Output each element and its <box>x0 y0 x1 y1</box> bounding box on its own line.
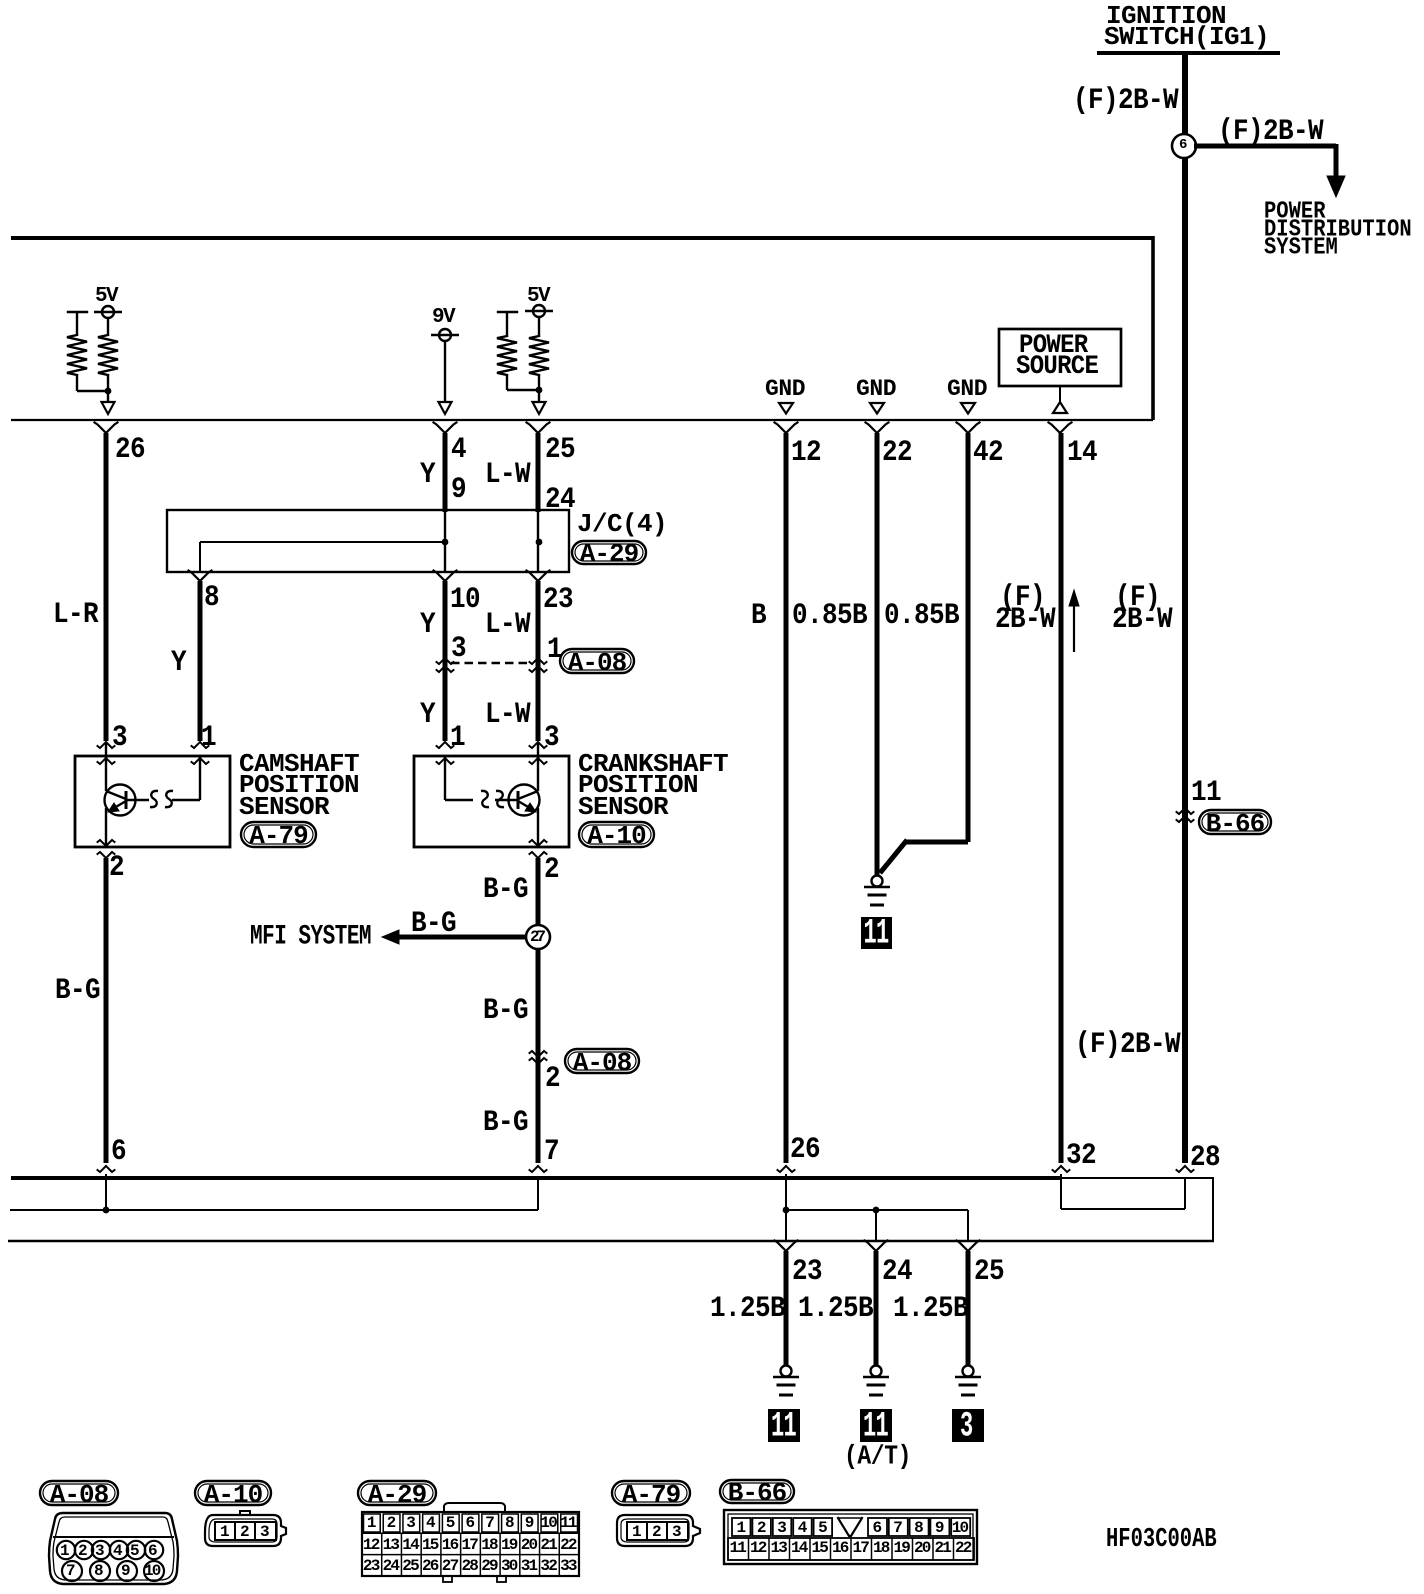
ECU pin 42 terminal <box>957 423 980 434</box>
ECU pin 26 terminal (text) <box>115 434 145 464</box>
node 6 splice junction <box>1172 134 1196 158</box>
ground ref 11 black tag left <box>768 1409 800 1442</box>
power symbol 9V rail <box>431 329 459 341</box>
label L-W mid (text) <box>485 609 530 639</box>
connector A-08 crossing pin 3 <box>437 658 454 672</box>
label (F)2B-W lower right (text) <box>1075 1029 1180 1059</box>
node 6 splice junction (text) <box>1179 138 1187 152</box>
ECU lower pin 28 terminal <box>1177 1166 1194 1172</box>
ground G4 (pin 25) <box>955 1366 981 1396</box>
diagram code HF03C00AB (text) <box>1106 1528 1217 1555</box>
wire B-G crankshaft to node 27 <box>536 858 541 937</box>
ECU pin 4 terminal (text) <box>451 434 466 464</box>
connector B-66 crossing pin 11 <box>1177 808 1194 822</box>
connector ref A-10 tag <box>579 822 654 847</box>
connector A-08 crossing pin 1 (text) <box>547 634 562 664</box>
camshaft position sensor box <box>75 756 230 847</box>
connector ref A-08 tag lower <box>565 1049 639 1073</box>
label 5V supply rail 2 (text) <box>527 286 549 307</box>
transistor Q1 camshaft sensor <box>105 742 150 846</box>
crankshaft sensor connector terminals pin 3 <box>530 742 547 764</box>
ground ref 11 black tag AT (text) <box>863 1410 888 1445</box>
wire B pin 12 to ECU lower <box>784 433 789 1163</box>
junction connector J/C(4) box <box>167 510 569 572</box>
label Y at wire 8 (text) <box>171 647 186 677</box>
label B-G crank upper (text) <box>483 874 528 904</box>
legend A-29 tag (text) <box>368 1482 426 1508</box>
ECU lower pin 28 terminal (text) <box>1190 1142 1220 1172</box>
label 1.25B wire 23 (text) <box>710 1293 785 1323</box>
ECU pin 42 terminal (text) <box>973 437 1003 467</box>
ground G1 (wires 22/42) <box>864 876 890 906</box>
crankshaft sensor output terminal pin 2 <box>530 840 547 858</box>
ECU lower pin 7 terminal (text) <box>544 1136 559 1166</box>
ECU pin 12 terminal (text) <box>791 437 821 467</box>
resistor R-pullup pair at pin 26 <box>67 311 118 402</box>
label B-G at MFI branch (text) <box>411 908 456 938</box>
J/C terminal pin 23 wire L-W <box>527 571 550 742</box>
label 0.85B wire 22 (text) <box>792 600 867 630</box>
camshaft sensor connector terminals pin 3 <box>98 742 115 764</box>
J/C terminal pin 10 wire Y (text) <box>450 584 480 614</box>
ignition switch label IGNITION SWITCH(IG1) <box>1097 51 1280 55</box>
wire 2B-W pin 14 to ECU lower <box>1059 433 1064 1163</box>
transistor Q2 crankshaft sensor <box>495 742 540 846</box>
ECU pin 4 terminal <box>434 423 457 434</box>
connector ref A-79 tag (text) <box>249 823 307 849</box>
wire ignition feed 2B-W vertical <box>1182 55 1188 1163</box>
ECU pin 22 terminal (text) <box>882 437 912 467</box>
ECU pin 26 terminal <box>95 423 118 434</box>
label crankshaft position sensor (text) <box>578 751 728 777</box>
legend connector A-79 drawing (text) <box>632 1524 640 1540</box>
label Y lower (text) <box>420 699 435 729</box>
junction dot pin 24 bus <box>873 1207 880 1214</box>
label L-R (text) <box>53 599 98 629</box>
connector ref A-29 tag <box>572 541 646 564</box>
crankshaft position sensor box <box>414 756 569 847</box>
junction dot resistor group 1 <box>105 388 112 395</box>
arrow into ECU pin 4 (open triangle) <box>439 402 452 414</box>
camshaft sensor output terminal pin 2 <box>98 840 115 858</box>
legend connector A-10 drawing (text) <box>220 1524 228 1540</box>
crankshaft sensor connector terminals pin 1 <box>437 742 454 764</box>
label 0.85B wire 42 (text) <box>884 600 959 630</box>
wire B-G camshaft to ECU pin 6 <box>104 858 109 1163</box>
current direction arrow up <box>1069 590 1079 652</box>
J/C terminal pin 10 wire Y <box>434 571 457 742</box>
magnetic pickup crankshaft sensor <box>445 757 504 807</box>
junction dot pin 23 bus <box>783 1207 790 1214</box>
label (F)2B-W at ignition wire (text) <box>1115 582 1160 612</box>
label J/C(4) (text) <box>577 511 667 537</box>
camshaft sensor connector terminals pin 1 (text) <box>201 722 216 752</box>
ECU pin 25 terminal <box>527 423 550 434</box>
label L-W lower (text) <box>485 699 530 729</box>
label B (text) <box>751 600 766 630</box>
J/C terminal to pin 8 wire Y (text) <box>204 582 219 612</box>
wire Y pins 4/9 to J/C <box>443 433 448 512</box>
ground ref 11 black tag mid (text) <box>864 917 889 952</box>
legend A-08 tag (text) <box>50 1482 108 1508</box>
ground ref 11 black tag left (text) <box>771 1410 796 1445</box>
internal wire pins 26-23-24-25 bus <box>786 1174 968 1241</box>
connector A-08 crossing pin 3 (text) <box>451 633 466 663</box>
legend A-10 tag (text) <box>204 1482 262 1508</box>
ECU pin 25 terminal (text) <box>545 434 575 464</box>
ground ref 11 black tag mid <box>861 917 892 949</box>
legend connector B-66 drawing (text) <box>737 1520 745 1536</box>
power symbol 5V rail 1 <box>94 306 122 318</box>
connector A-08 crossing pin 2 (text) <box>545 1063 560 1093</box>
connector B-66 crossing pin 11 (text) <box>1191 777 1221 807</box>
internal wire pins 6-7 bus <box>10 1174 538 1210</box>
label 1.25B wire 25 (text) <box>893 1293 968 1323</box>
connector ref B-66 tag inline <box>1199 810 1271 834</box>
ECU lower pin 25 terminal out (text) <box>974 1256 1004 1286</box>
label B-G lowest (text) <box>483 1107 528 1137</box>
connector ref A-08 tag lower (text) <box>573 1050 631 1076</box>
GND internal label 2 (text) <box>856 378 896 401</box>
ECU lower pin 7 terminal <box>530 1166 547 1172</box>
label 9V supply rail (text) <box>432 307 454 328</box>
GND internal label 1 <box>779 403 793 414</box>
label Y upper (text) <box>420 459 435 489</box>
ECU lower pin 26 terminal (text) <box>790 1134 820 1164</box>
label B-G below node 27 (text) <box>483 995 528 1025</box>
internal wire pins 32-28 bus <box>1061 1174 1185 1209</box>
ECU pin 14 terminal <box>1049 423 1072 434</box>
label 1.25B wire 24 (text) <box>798 1293 873 1323</box>
legend A-10 tag <box>195 1481 271 1505</box>
ECU pin 24 second label (text) <box>545 484 575 514</box>
ECU lower pin 32 terminal (text) <box>1066 1140 1096 1170</box>
power symbol 5V rail 2 <box>525 305 553 317</box>
ECU pin 22 terminal <box>866 423 889 434</box>
legend connector A-08 drawing <box>49 1513 178 1584</box>
ECU lower pin 23 terminal out (text) <box>792 1256 822 1286</box>
legend A-08 tag <box>40 1481 118 1505</box>
engine ECU bottom band outline <box>8 1178 1214 1242</box>
legend A-79 tag (text) <box>622 1482 680 1508</box>
engine ECU top band outline <box>11 236 1153 420</box>
camshaft sensor connector terminals pin 1 <box>192 742 209 764</box>
crankshaft sensor output terminal pin 2 (text) <box>544 854 559 884</box>
power source block inside ECU (text) <box>1019 333 1088 360</box>
junction dot pin 6 bus <box>103 1207 110 1214</box>
legend connector A-08 drawing (text) <box>60 1543 68 1559</box>
camshaft sensor output terminal pin 2 (text) <box>109 852 124 882</box>
J/C terminal to pin 8 wire Y <box>189 571 212 742</box>
wire L-R pin 26 to camshaft sensor <box>104 433 109 741</box>
wire 0.85B pin 22 to ground <box>875 433 880 876</box>
arrow into ECU pin 25 (open triangle) <box>533 402 546 414</box>
label MFI SYSTEM (text) <box>250 924 371 951</box>
label (F)2B-W at wire 14 (text) <box>1000 582 1045 612</box>
legend A-79 tag <box>612 1481 690 1505</box>
ECU pin 12 terminal <box>775 423 798 434</box>
ground ref 3 black tag <box>952 1409 984 1442</box>
connector ref A-10 tag (text) <box>587 823 645 849</box>
label B-G left (text) <box>55 975 100 1005</box>
connector ref A-08 tag upper (text) <box>568 650 626 676</box>
connector ref B-66 tag inline (text) <box>1206 811 1264 837</box>
power source block inside ECU <box>999 329 1121 413</box>
label (F)2B-W ignition upper (text) <box>1073 85 1178 115</box>
ECU pin 14 terminal (text) <box>1067 437 1097 467</box>
ECU lower pin 26 terminal <box>778 1166 795 1172</box>
connector ref A-79 tag <box>241 822 316 847</box>
label L-W upper (text) <box>485 459 530 489</box>
magnetic pickup camshaft sensor <box>150 757 200 807</box>
ECU lower pin 24 terminal out (text) <box>882 1256 912 1286</box>
node 27 splice junction <box>526 925 550 1163</box>
ECU lower pin 23 terminal out <box>775 1241 798 1367</box>
wire branch to power distribution system <box>1194 144 1345 197</box>
camshaft sensor connector terminals pin 3 (text) <box>112 722 127 752</box>
wire B-G branch to MFI system <box>382 930 527 944</box>
ignition switch label IGNITION SWITCH(IG1) (text) <box>1106 3 1226 29</box>
ECU lower pin 6 terminal <box>98 1166 115 1172</box>
legend connector A-29 drawing (text) <box>367 1515 375 1531</box>
legend connector A-10 drawing <box>205 1511 286 1546</box>
GND internal label 3 <box>961 403 975 414</box>
wire 0.85B pin 42 to ground <box>880 433 968 873</box>
label power distribution system (text) <box>1264 201 1326 225</box>
label 5V supply rail 1 (text) <box>95 286 117 307</box>
ground G3 (pin 24) <box>863 1366 889 1396</box>
J/C terminal pin 23 wire L-W (text) <box>543 584 573 614</box>
connector ref A-29 tag (text) <box>580 541 638 567</box>
wire 9V to pin 4 <box>444 341 446 402</box>
junction dot J/C at L-W wire <box>536 539 543 546</box>
ECU lower pin 6 terminal (text) <box>111 1136 126 1166</box>
connector A-08 crossing pin 1 <box>530 658 547 672</box>
label camshaft position sensor (text) <box>239 751 359 777</box>
ground ref 11 black tag AT <box>860 1409 892 1442</box>
wire L-W pins 25/24 to J/C <box>536 433 541 512</box>
junction dot resistor group 2 <box>536 387 543 394</box>
GND internal label 1 (text) <box>765 378 805 401</box>
legend B-66 tag <box>720 1480 794 1503</box>
junction dot J/C bus at Y wire <box>442 539 449 546</box>
crankshaft sensor connector terminals pin 3 (text) <box>544 722 559 752</box>
ECU lower pin 24 terminal out <box>865 1241 888 1367</box>
node 27 splice junction (text) <box>530 929 543 945</box>
connector A-08 crossing pin 2 <box>530 1051 547 1064</box>
arrow into ECU pin 26 (open triangle) <box>102 402 115 414</box>
GND internal label 2 <box>870 403 884 414</box>
ground ref 3 black tag (text) <box>960 1410 973 1445</box>
legend connector A-29 drawing <box>362 1503 579 1582</box>
ECU lower pin 32 terminal <box>1053 1166 1070 1172</box>
resistor R-pullup pair at pin 25 <box>497 311 549 402</box>
ground G2 (pin 23) <box>773 1366 799 1396</box>
label (A/T) (text) <box>844 1444 911 1470</box>
legend B-66 tag (text) <box>728 1480 786 1506</box>
legend connector A-79 drawing <box>617 1515 700 1546</box>
ECU lower pin 25 terminal out <box>957 1241 980 1367</box>
legend connector B-66 drawing <box>724 1510 977 1564</box>
label Y mid (text) <box>420 609 435 639</box>
connector ref A-08 tag upper <box>560 649 634 673</box>
connector A-08 dashed tie line <box>451 662 532 665</box>
label (F)2B-W branch (text) <box>1218 116 1323 146</box>
GND internal label 3 (text) <box>947 378 987 401</box>
ECU pin 9 second label (text) <box>451 474 466 504</box>
crankshaft sensor connector terminals pin 1 (text) <box>450 722 465 752</box>
legend A-29 tag <box>358 1481 436 1505</box>
